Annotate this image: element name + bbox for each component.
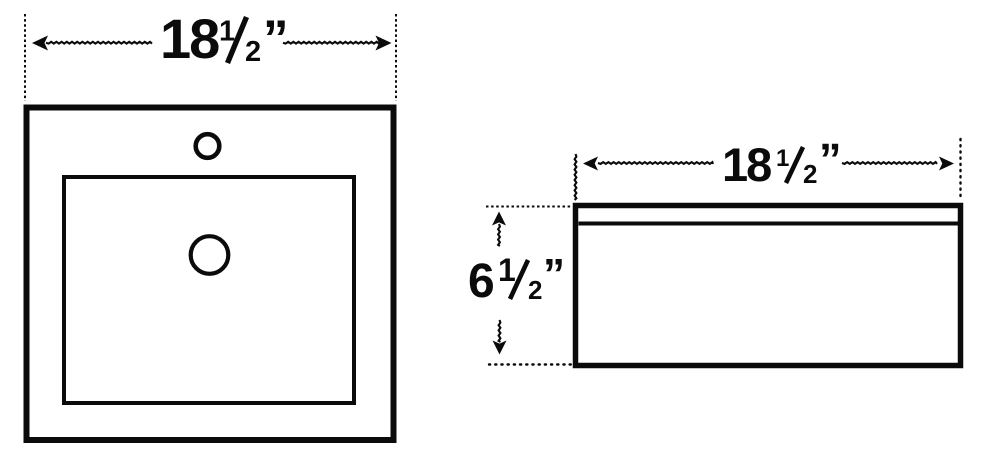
sink outer rim (top view square) xyxy=(27,108,394,441)
svg-text:”: ” xyxy=(263,10,289,67)
svg-text:2: 2 xyxy=(528,275,542,305)
extension line left (side view width dim) xyxy=(575,154,577,200)
svg-text:2: 2 xyxy=(245,36,261,68)
sink body (side view rectangle) xyxy=(576,206,961,366)
dimension leader line right (top view) xyxy=(283,42,379,44)
svg-text:6: 6 xyxy=(468,255,495,308)
drain hole xyxy=(191,236,229,274)
dimension label 18 1/2" (side view) xyxy=(722,134,842,191)
dimension leader line lower (side view height) xyxy=(499,320,501,342)
sink rim line (side view) xyxy=(579,222,959,226)
svg-text:”: ” xyxy=(543,250,565,299)
svg-text:1: 1 xyxy=(498,252,516,288)
dimension leader line left (top view) xyxy=(46,42,152,44)
svg-text:18: 18 xyxy=(722,138,771,191)
extension line right (top view width dim) xyxy=(395,14,397,101)
dimension leader line left (side view) xyxy=(598,162,713,164)
dimension arrow left (top view 18 1/2") xyxy=(32,36,48,51)
svg-text:”: ” xyxy=(819,134,842,185)
dimension leader line right (side view) xyxy=(842,162,937,164)
dimension arrow up (side view 6 1/2") xyxy=(492,212,506,226)
svg-text:1: 1 xyxy=(219,16,235,48)
extension line left (top view width dim) xyxy=(24,14,26,101)
sink basin (top view inner rectangle) xyxy=(64,177,354,403)
svg-text:18: 18 xyxy=(160,7,219,70)
extension line right (side view width dim) xyxy=(959,139,961,200)
dimension label 18 1/2" (top view) xyxy=(160,7,289,70)
dimension arrow right (side view 18 1/2") xyxy=(939,157,954,171)
svg-text:1: 1 xyxy=(776,145,789,172)
extension line top (side view height dim) xyxy=(486,206,572,208)
dimension arrow right (top view 18 1/2") xyxy=(376,36,392,51)
faucet hole xyxy=(196,134,220,158)
extension line bottom (side view height dim) xyxy=(489,363,573,365)
dimension arrow down (side view 6 1/2") xyxy=(493,341,507,355)
dimension leader line upper (side view height) xyxy=(498,224,500,246)
dimension label 6 1/2" (side view height) xyxy=(468,250,565,308)
dimension arrow left (side view 18 1/2") xyxy=(583,157,598,171)
svg-text:2: 2 xyxy=(803,159,817,189)
